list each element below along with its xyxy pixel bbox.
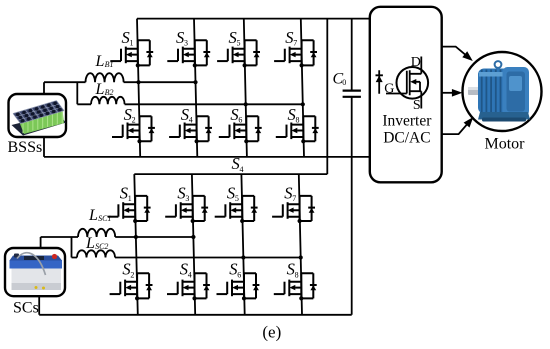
svg-text:G: G [384,82,394,97]
svg-text:S: S [176,28,184,47]
svg-text:DC/AC: DC/AC [383,130,430,147]
svg-text:L: L [95,81,105,98]
svg-text:SCs: SCs [13,299,39,316]
svg-text:(e): (e) [262,323,281,342]
svg-text:SC2: SC2 [95,242,108,251]
svg-text:8: 8 [295,270,299,279]
svg-text:Motor: Motor [485,136,526,153]
svg-text:7: 7 [292,194,296,203]
svg-text:B1: B1 [105,60,114,69]
svg-text:4: 4 [240,165,244,174]
svg-text:6: 6 [238,116,242,125]
svg-text:5: 5 [235,194,239,203]
svg-text:B2: B2 [105,88,114,97]
svg-text:D: D [411,55,421,70]
svg-text:4: 4 [189,116,193,125]
svg-text:S: S [122,28,130,47]
svg-text:L: L [88,207,98,224]
svg-text:4: 4 [188,270,192,279]
svg-text:5: 5 [237,39,241,48]
svg-text:L: L [95,53,105,70]
svg-text:1: 1 [128,194,132,203]
svg-text:2: 2 [130,270,134,279]
svg-text:S: S [232,154,240,173]
svg-text:8: 8 [296,116,300,125]
svg-text:1: 1 [130,39,134,48]
svg-text:3: 3 [184,39,188,48]
svg-text:3: 3 [185,194,189,203]
svg-text:S: S [413,98,421,113]
svg-text:S: S [229,28,237,47]
svg-text:6: 6 [237,270,241,279]
svg-text:SC1: SC1 [98,214,111,223]
svg-text:L: L [85,235,95,252]
svg-text:Inverter: Inverter [382,113,432,130]
svg-text:0: 0 [342,78,346,87]
svg-text:BSSs: BSSs [8,139,43,156]
svg-text:2: 2 [132,116,136,125]
svg-text:S: S [288,105,296,124]
svg-text:7: 7 [293,39,297,48]
